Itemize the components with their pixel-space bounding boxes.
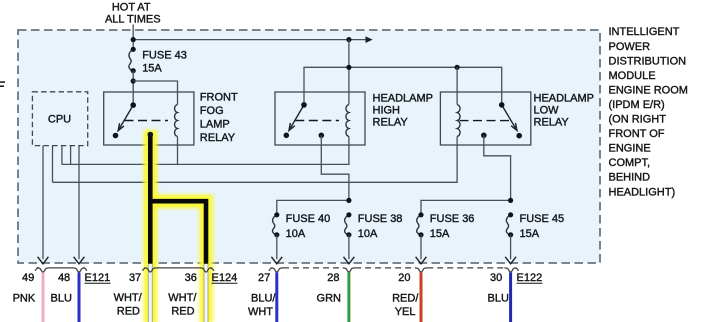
svg-text:FRONT OF: FRONT OF [609, 128, 665, 140]
node: junction feed fuse 38 [346, 198, 351, 203]
wire: CPU pin to fog/high coil net [61, 146, 63, 165]
connector E124 bracket [143, 268, 214, 272]
connector name E122 [517, 272, 543, 284]
wire: GRN wire terminal 28 [347, 273, 350, 322]
svg-text:BLU/: BLU/ [251, 292, 276, 304]
svg-text:10A: 10A [286, 228, 306, 240]
svg-text:FUSE 43: FUSE 43 [142, 50, 187, 62]
svg-text:ENGINE: ENGINE [609, 143, 651, 155]
wire: high relay output to fuse 40/38 feed [321, 135, 349, 200]
svg-text:MODULE: MODULE [609, 70, 656, 82]
relay K1 switch [113, 102, 136, 138]
wire: fuse 38 to terminal 28 [344, 235, 355, 264]
wire: RED/YEL wire terminal 20 [420, 273, 423, 322]
node: junction dot at fuse 43 top tap [131, 37, 136, 42]
svg-text:27: 27 [258, 272, 270, 284]
svg-text:30: 30 [490, 272, 502, 284]
svg-text:CPU: CPU [48, 114, 71, 126]
relay K3 coil [457, 105, 460, 137]
svg-text:(ON RIGHT: (ON RIGHT [609, 114, 667, 126]
label HEADLAMP LOW RELAY [534, 93, 595, 129]
node: junction dot low coil tap on bus [455, 65, 460, 70]
node: low relay output contact [481, 133, 487, 139]
value label FUSE 45 15A [520, 213, 565, 240]
wire: drop from bus to headlamp low relay coil [456, 67, 458, 104]
svg-text:RELAY: RELAY [373, 117, 409, 129]
wire: drop from top bus to headlamp high relay coil [348, 40, 350, 105]
svg-text:HOT AT: HOT AT [112, 2, 151, 14]
node: junction dot high coil on bus [346, 65, 351, 70]
svg-text:PNK: PNK [13, 292, 36, 304]
wire colour label WHT/RED terminal 37 [114, 292, 143, 318]
node: high relay output contact [319, 133, 325, 139]
wire: battery feed down from HOT AT ALL TIMES to fuse 43 [132, 25, 134, 50]
svg-text:10A: 10A [358, 228, 378, 240]
wire: BLU/WHT wire terminal 27 [275, 273, 278, 322]
connector name E121 [85, 272, 111, 284]
wire: BLU wire terminal 30 [509, 273, 512, 322]
node: junction feed fuse 45 [508, 198, 513, 203]
wire: fuse 43 output down to fog relay switch [132, 71, 134, 105]
value label FUSE 40 10A [286, 213, 331, 240]
relay K2 switch [284, 102, 307, 138]
svg-text:FOG: FOG [200, 105, 224, 117]
svg-text:49: 49 [22, 272, 34, 284]
wire: CPU pin joining coil net [70, 146, 72, 165]
svg-text:YEL: YEL [395, 306, 416, 318]
relay K1 coil [175, 105, 178, 137]
svg-text:BEHIND: BEHIND [609, 172, 651, 184]
relay K1 box: front fog lamp relay [104, 92, 194, 145]
wire: low coil return to CPU net [53, 137, 458, 183]
svg-text:WHT: WHT [248, 306, 273, 318]
fuse F43 symbol [129, 47, 136, 74]
svg-text:FRONT: FRONT [200, 92, 238, 104]
svg-text:15A: 15A [430, 228, 450, 240]
wire: feed line fuses 40 and 38 [277, 200, 349, 214]
svg-text:15A: 15A [520, 228, 540, 240]
svg-text:HEADLAMP: HEADLAMP [373, 93, 434, 105]
wire: fuse 45 to terminal 30 [505, 235, 516, 264]
value label FUSE 43 15A [142, 50, 187, 75]
svg-text:RED: RED [171, 305, 194, 317]
svg-text:WHT/: WHT/ [168, 292, 197, 304]
wire: CPU pin to terminal 49 [38, 146, 49, 264]
wire: PNK wire terminal 49 [42, 273, 45, 322]
fuse F38 symbol [345, 212, 352, 237]
svg-text:E124: E124 [212, 272, 238, 284]
fuse F40 symbol [273, 212, 280, 237]
value label FUSE 38 10A [358, 213, 403, 240]
wire: CPU pin to low coil net [52, 146, 54, 183]
CPU box (dashed) [32, 92, 87, 146]
relay K2 box: headlamp high relay [275, 92, 365, 145]
relay K3 mechanical link (dashed) [460, 120, 510, 122]
fuse F45 symbol [506, 212, 513, 237]
svg-text:ALL TIMES: ALL TIMES [105, 14, 161, 26]
value label FUSE 36 15A [430, 213, 475, 240]
svg-text:15A: 15A [142, 63, 162, 75]
svg-text:BLU: BLU [50, 292, 71, 304]
wire: high coil return to CPU net [62, 137, 349, 165]
relay K1 mechanical link (dashed) [125, 120, 169, 122]
connector E122 bracket (dashed) [269, 268, 518, 272]
svg-text:RED/: RED/ [392, 292, 419, 304]
relay K3 switch [499, 102, 522, 138]
wire: white wire below connector terminal 37 [148, 264, 152, 322]
svg-text:LAMP: LAMP [200, 119, 230, 131]
relay K2 mechanical link (dashed) [295, 120, 339, 122]
svg-text:E121: E121 [85, 272, 111, 284]
svg-text:RED: RED [117, 305, 140, 317]
wire: bus to relay switches and low coil [304, 67, 502, 105]
svg-text:FUSE 38: FUSE 38 [358, 213, 403, 225]
wire: BLU wire terminal 48 [78, 273, 81, 322]
svg-text:FUSE 45: FUSE 45 [520, 213, 565, 225]
svg-text:BLU: BLU [487, 292, 508, 304]
svg-text:RELAY: RELAY [534, 117, 570, 129]
svg-text:HIGH: HIGH [373, 105, 401, 117]
highlighted circuit: thick black WHT/RED wire from fog relay output [148, 132, 207, 264]
wire: fuse 40 to terminal 27 [271, 235, 282, 264]
wire colour label WHT/RED terminal 36 [168, 292, 197, 318]
label HEADLAMP HIGH RELAY [373, 93, 434, 129]
svg-text:LOW: LOW [534, 105, 560, 117]
svg-text:48: 48 [58, 272, 70, 284]
node B+: HOT AT ALL TIMES label [105, 2, 161, 26]
svg-text:ENGINE ROOM: ENGINE ROOM [609, 84, 688, 96]
svg-text:FUSE 36: FUSE 36 [430, 213, 475, 225]
wire: jog from fuse 43 output to fog relay coil [133, 81, 177, 105]
label: IPDM E/R location note [609, 26, 688, 198]
svg-text:DISTRIBUTION: DISTRIBUTION [609, 55, 687, 67]
node: junction dot on top bus feeding headlamp relays [346, 37, 351, 42]
svg-text:(IPDM E/R): (IPDM E/R) [609, 99, 665, 111]
wire: white wire below connector terminal 36 [204, 264, 208, 322]
connector E121 bracket [35, 268, 87, 272]
wire colour label BLU/WHT [248, 292, 276, 318]
svg-text:INTELLIGENT: INTELLIGENT [609, 26, 680, 38]
wire: fog coil return down to CPU net [177, 137, 179, 165]
connector name E124 [212, 272, 238, 284]
svg-text:HEADLIGHT): HEADLIGHT) [609, 186, 676, 198]
wire colour label RED/YEL [392, 292, 419, 318]
relay K2 coil [346, 105, 349, 137]
node: junction dot fuse 43 output [131, 78, 136, 83]
svg-text:37: 37 [129, 272, 141, 284]
relay K3 box: headlamp low relay [440, 92, 530, 145]
svg-text:COMPT,: COMPT, [609, 157, 651, 169]
label FRONT FOG LAMP RELAY [200, 92, 238, 145]
svg-text:RELAY: RELAY [200, 132, 236, 144]
svg-text:36: 36 [185, 272, 197, 284]
svg-text:HEADLAMP: HEADLAMP [534, 93, 595, 105]
wire: feed line fuses 36 and 45 [421, 200, 511, 214]
wire: CPU pin to terminal 48 [74, 146, 85, 264]
svg-text:GRN: GRN [317, 292, 342, 304]
svg-text:WHT/: WHT/ [114, 292, 143, 304]
decor: cropped glyph fragment at left edge [0, 81, 5, 87]
wire: low relay output to fuse 36/45 feed [484, 135, 511, 200]
svg-text:FUSE 40: FUSE 40 [286, 213, 331, 225]
svg-text:POWER: POWER [609, 41, 651, 53]
wire: fuse 36 to terminal 20 [416, 235, 427, 264]
wire: top bus from fuse 43 node to headlamp relays with continuation arrow [133, 36, 372, 43]
svg-text:20: 20 [398, 272, 410, 284]
svg-text:28: 28 [327, 272, 339, 284]
fuse F36 symbol [417, 212, 424, 237]
IPDM E/R module boundary (light blue dashed box) [18, 30, 600, 263]
svg-text:E122: E122 [517, 272, 543, 284]
